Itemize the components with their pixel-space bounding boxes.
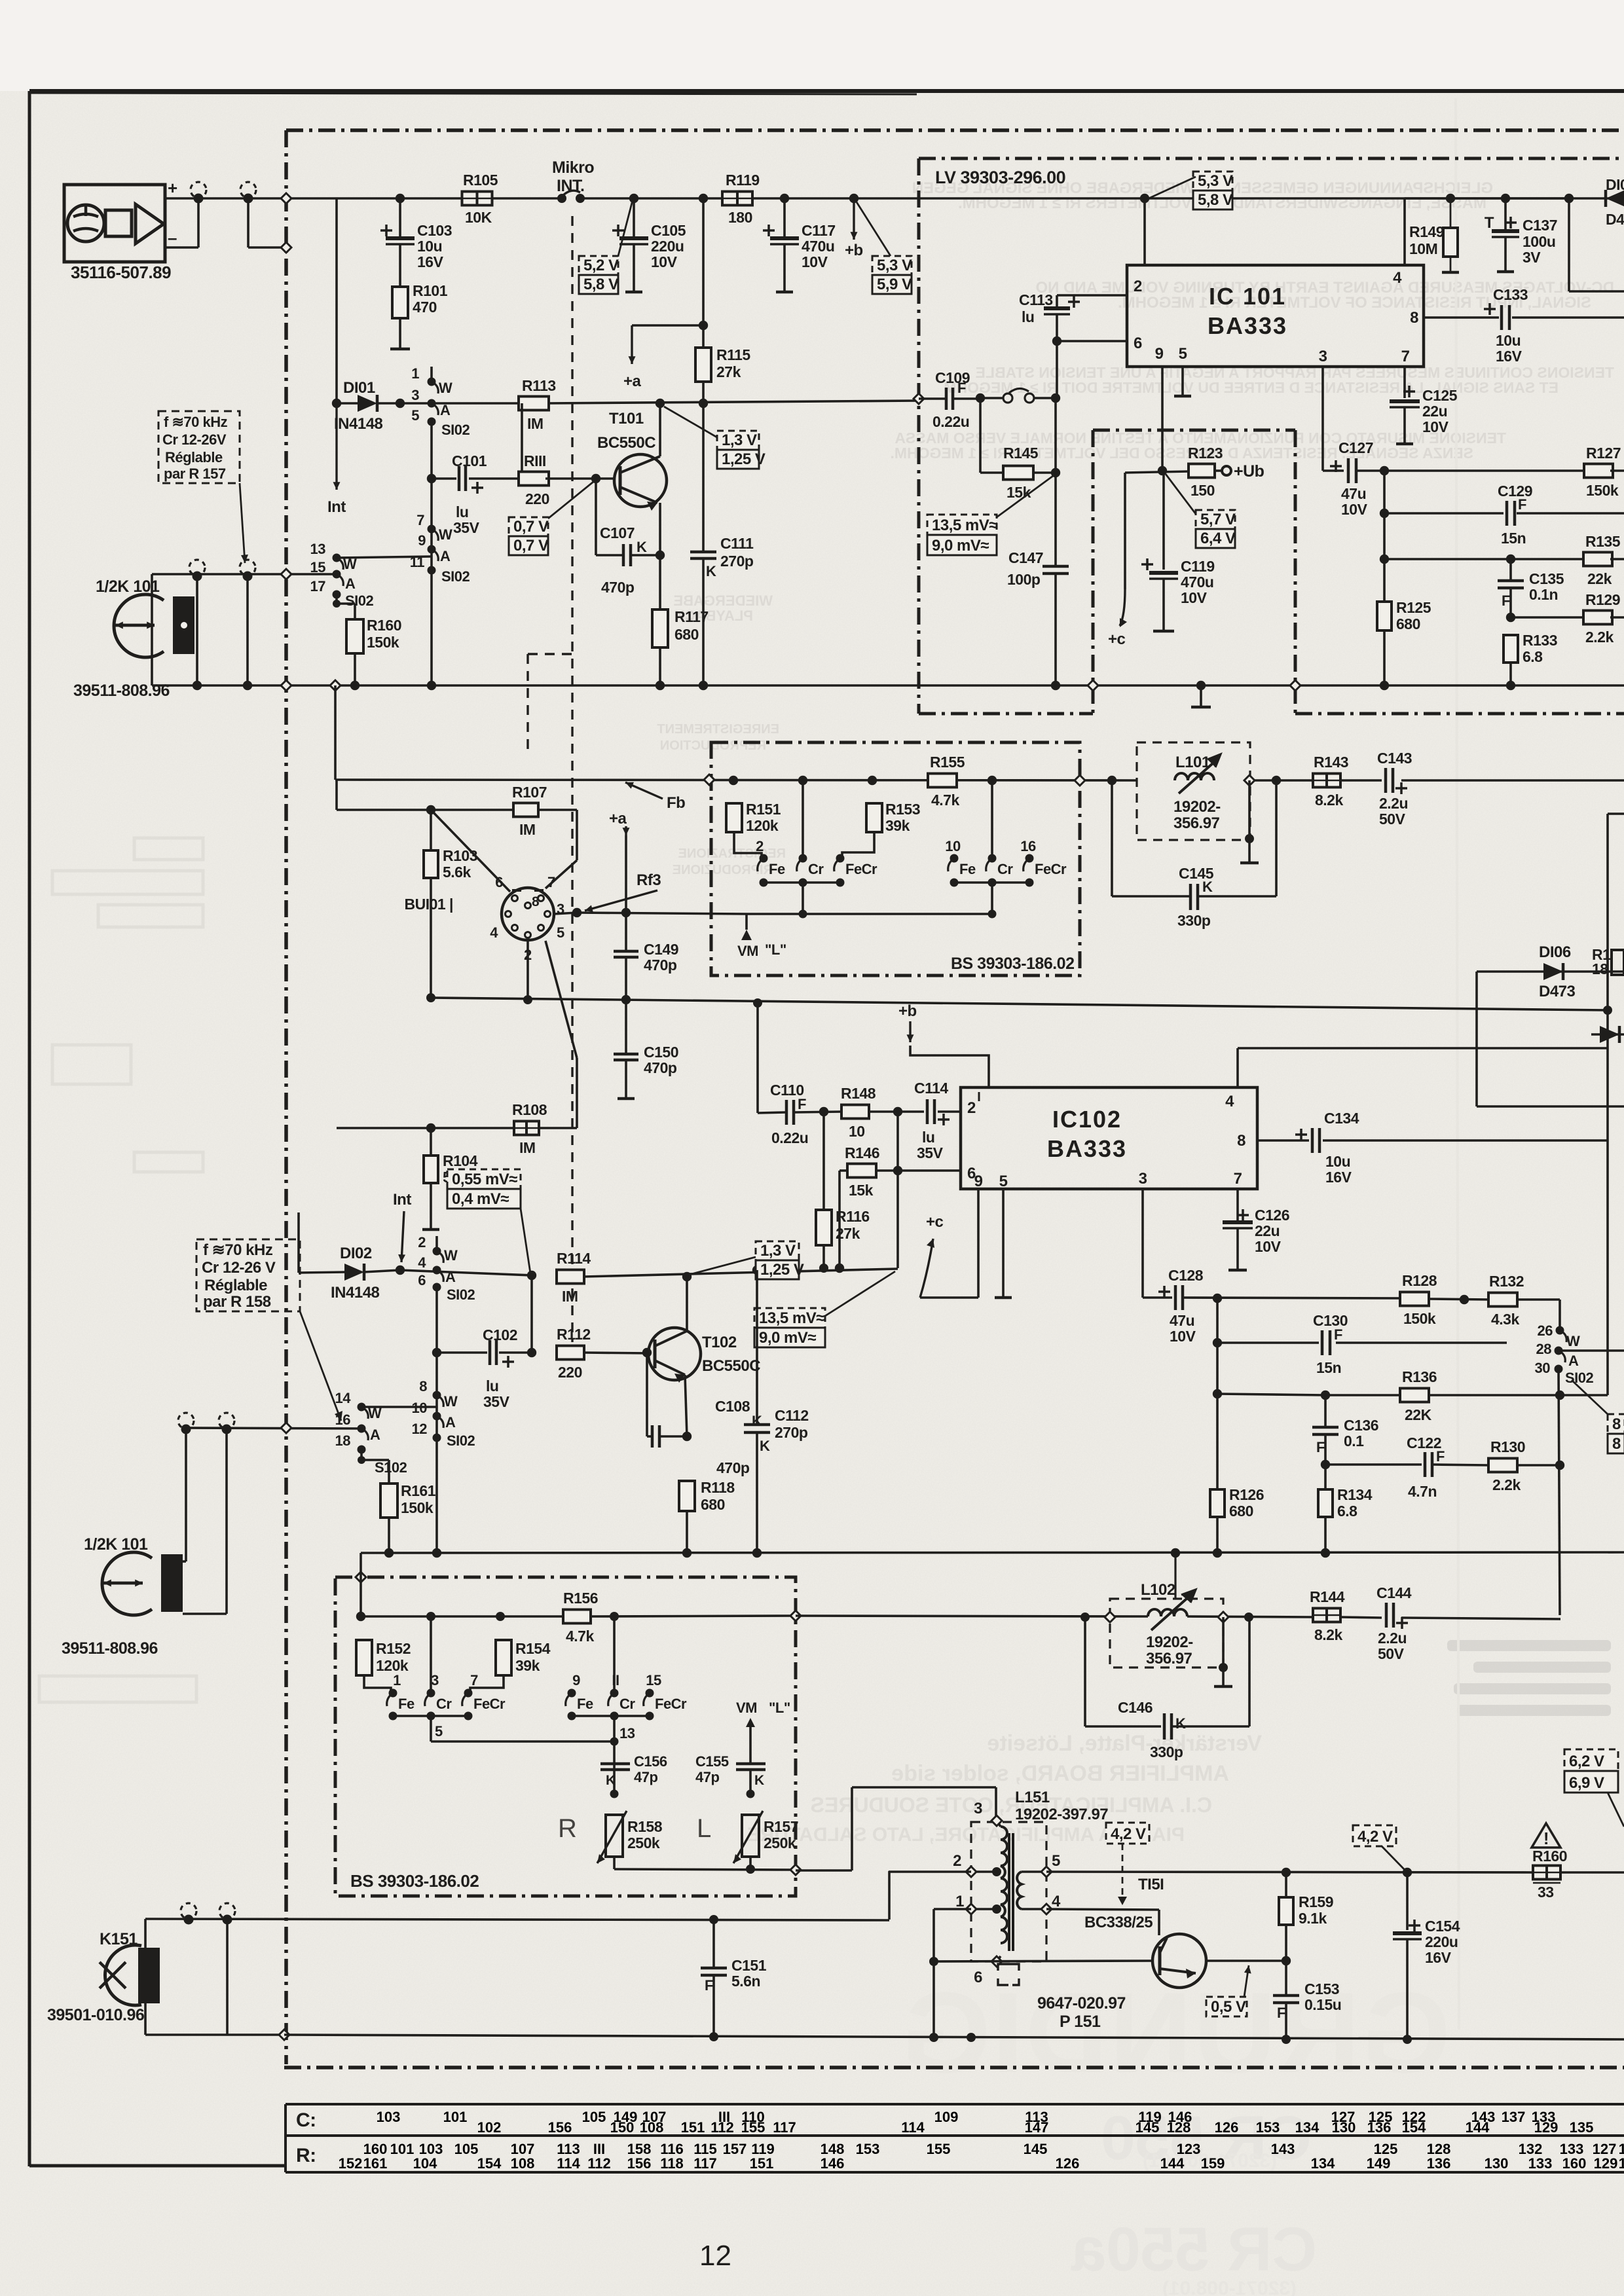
- svg-text:SI02: SI02: [447, 1432, 475, 1449]
- svg-text:DI06: DI06: [1539, 943, 1571, 961]
- svg-text:9,0 mV≈: 9,0 mV≈: [932, 537, 989, 555]
- svg-text:16V: 16V: [1425, 1949, 1452, 1966]
- flag 5,3V/5,8V at IC101 input: [1147, 172, 1233, 210]
- svg-text:6: 6: [974, 1969, 982, 1986]
- svg-text:INT.: INT.: [557, 177, 584, 195]
- svg-text:BC550C: BC550C: [597, 434, 655, 452]
- svg-text:220u: 220u: [651, 238, 684, 255]
- svg-text:R133: R133: [1522, 632, 1557, 649]
- svg-text:+c: +c: [926, 1213, 944, 1231]
- svg-text:156: 156: [548, 2119, 572, 2136]
- node M2 wire start: [356, 1612, 365, 1621]
- svg-text:130: 130: [1485, 2155, 1509, 2172]
- wire L101 ground tap: [1240, 780, 1259, 863]
- node C127/R125: [1380, 466, 1389, 475]
- wire base row lower y2066: [437, 1351, 532, 1354]
- svg-text:C135: C135: [1529, 570, 1564, 587]
- svg-text:3: 3: [431, 1672, 439, 1688]
- capacitor C127: [1330, 439, 1587, 518]
- svg-text:5,8 V: 5,8 V: [583, 276, 619, 293]
- wire y2131 row: [1325, 1140, 1608, 1395]
- wire lower head leads: [183, 1431, 227, 1614]
- svg-text:F: F: [957, 380, 966, 396]
- node head wire border: [281, 569, 291, 579]
- wire main to IC101 top: [1140, 194, 1149, 265]
- node C135: [1506, 555, 1515, 564]
- svg-text:16: 16: [1020, 838, 1036, 854]
- svg-text:3: 3: [1319, 348, 1327, 365]
- resistor R145 15k: [980, 398, 1056, 501]
- svg-text:R103: R103: [443, 847, 477, 864]
- svg-text:108: 108: [511, 2155, 535, 2172]
- svg-text:A: A: [440, 402, 451, 418]
- wire bus y1047: [152, 684, 1624, 687]
- node C137: [1501, 194, 1510, 203]
- node R107/R103: [426, 805, 435, 814]
- capacitor C137 100u: [1485, 198, 1557, 272]
- svg-text:15k: 15k: [1006, 484, 1031, 501]
- node bus2 junction: [752, 1548, 762, 1558]
- node C145 loop right: [1272, 776, 1281, 785]
- svg-text:18: 18: [335, 1432, 351, 1449]
- svg-text:470p: 470p: [716, 1459, 750, 1476]
- svg-text:5.6k: 5.6k: [443, 864, 471, 881]
- switch bank4 Cr contact (pin11): [608, 1612, 636, 1721]
- node R114 left: [527, 1271, 536, 1280]
- node DI02 cathode: [396, 1266, 405, 1275]
- node main/R115 column: [699, 194, 708, 203]
- node bus junction: [655, 681, 665, 690]
- svg-text:15: 15: [646, 1672, 661, 1688]
- module boundary dash-dot outer: [284, 130, 1624, 2068]
- tap Int arrow lower: [393, 1191, 411, 1262]
- svg-text:FeCr: FeCr: [1035, 861, 1067, 877]
- svg-text:6.8: 6.8: [1522, 648, 1543, 665]
- svg-text:19202-: 19202-: [1173, 798, 1221, 816]
- resistor R117: [652, 555, 709, 685]
- tap VM L lower / C155 column: [736, 1700, 790, 1764]
- svg-text:147: 147: [1025, 2119, 1049, 2136]
- svg-text:R156: R156: [563, 1590, 598, 1607]
- svg-text:Int: Int: [393, 1191, 411, 1209]
- svg-text:+b: +b: [898, 1002, 917, 1020]
- resistor R155 4.7k: [928, 754, 965, 809]
- svg-text:R136: R136: [1402, 1368, 1437, 1385]
- svg-text:120k: 120k: [376, 1657, 409, 1674]
- svg-text:152: 152: [339, 2155, 363, 2172]
- svg-text:BA333: BA333: [1208, 312, 1287, 339]
- wire bus y2372: [361, 1552, 1624, 1553]
- svg-text:Cr: Cr: [436, 1696, 452, 1712]
- svg-text:lu: lu: [922, 1129, 934, 1146]
- switch bank2 FeCr contact (pin16): [1020, 838, 1067, 887]
- svg-text:150k: 150k: [367, 634, 399, 651]
- svg-text:C155: C155: [695, 1753, 729, 1770]
- svg-text:35V: 35V: [917, 1144, 944, 1161]
- warning triangle: [1532, 1823, 1560, 1848]
- svg-text:109: 109: [934, 2109, 959, 2125]
- svg-text:6: 6: [495, 874, 503, 890]
- node R111 left: [517, 474, 526, 483]
- svg-text:L102: L102: [1141, 1581, 1175, 1599]
- lamp K151 39501-010.96: [47, 1930, 160, 2024]
- svg-text:IM: IM: [562, 1288, 578, 1305]
- switch bank3 FeCr contact (pin7): [462, 1672, 506, 1721]
- resistor R148 10: [841, 1085, 876, 1140]
- svg-text:13: 13: [619, 1725, 635, 1741]
- capacitor C128: [1158, 1267, 1402, 1345]
- svg-text:0.22u: 0.22u: [932, 413, 969, 430]
- svg-text:150k: 150k: [1586, 482, 1619, 499]
- wire L151 pin5 row y2859: [1046, 1872, 1624, 1872]
- svg-text:SI02: SI02: [345, 592, 374, 609]
- svg-text:27k: 27k: [716, 363, 741, 380]
- svg-text:f ≋70 kHz: f ≋70 kHz: [203, 1241, 273, 1259]
- wire second y616: [400, 401, 919, 403]
- svg-text:104: 104: [413, 2155, 437, 2172]
- svg-text:129: 129: [1534, 2119, 1559, 2136]
- switch S102 contacts 8/10/12: [412, 1287, 475, 1553]
- svg-text:R135: R135: [1585, 533, 1621, 550]
- svg-text:+a: +a: [609, 810, 627, 828]
- node y2131 row: [1555, 1391, 1564, 1400]
- svg-text:R134: R134: [1337, 1486, 1373, 1503]
- svg-text:4,2 V: 4,2 V: [1357, 1828, 1393, 1846]
- node main/C105: [629, 194, 638, 203]
- wire R113-left down to base row: [521, 403, 523, 479]
- svg-text:C112: C112: [775, 1407, 809, 1424]
- flag 5,2V/5,8V: [579, 200, 633, 294]
- svg-text:C129: C129: [1498, 483, 1532, 500]
- svg-text:WIEDERGABE: WIEDERGABE: [673, 592, 773, 609]
- svg-text:C147: C147: [1008, 549, 1043, 566]
- svg-text:8.2k: 8.2k: [1315, 792, 1343, 809]
- svg-text:2.2k: 2.2k: [1585, 629, 1614, 646]
- svg-text:330p: 330p: [1177, 912, 1211, 929]
- wire pin14 to S102 column: [361, 1406, 437, 1408]
- wire rail y1528 long: [431, 998, 1612, 1015]
- svg-text:26: 26: [1538, 1322, 1553, 1339]
- wire L151 pin4 row to T151 collector: [1046, 1909, 1159, 1935]
- svg-text:R144: R144: [1310, 1588, 1345, 1605]
- svg-text:4.7n: 4.7n: [1408, 1483, 1437, 1500]
- wire R114-left down: [530, 1275, 533, 1353]
- svg-text:ET SANS SIGNAL. LA RESISTANCE: ET SANS SIGNAL. LA RESISTANCE D ENTREE D…: [944, 379, 1559, 396]
- node main/C117: [780, 194, 789, 203]
- node bus2 junction: [682, 1548, 692, 1558]
- svg-text:C133: C133: [1493, 286, 1528, 303]
- svg-text:47u: 47u: [1341, 485, 1366, 502]
- svg-text:f ≋70 kHz: f ≋70 kHz: [164, 414, 228, 430]
- svg-text:19202-: 19202-: [1146, 1633, 1193, 1651]
- svg-text:356.97: 356.97: [1146, 1650, 1192, 1667]
- svg-text:2: 2: [1134, 278, 1142, 295]
- svg-text:5,9 V: 5,9 V: [877, 276, 912, 293]
- svg-text:R148: R148: [841, 1085, 876, 1102]
- svg-text:154: 154: [477, 2155, 502, 2172]
- svg-text:0.15u: 0.15u: [1304, 1996, 1341, 2013]
- tap Int arrow: [327, 403, 346, 516]
- svg-text:1/2K 101: 1/2K 101: [96, 577, 160, 596]
- svg-text:5.6n: 5.6n: [731, 1973, 760, 1990]
- svg-text:128: 128: [1167, 2119, 1191, 2136]
- node +a tap: [699, 321, 708, 330]
- svg-text:Fe: Fe: [769, 861, 785, 877]
- svg-text:28: 28: [1536, 1341, 1552, 1357]
- svg-text:149: 149: [1367, 2155, 1391, 2172]
- svg-text:FeCr: FeCr: [845, 861, 877, 877]
- svg-text:220: 220: [525, 490, 549, 507]
- diode DI05 D473 at edge: [1569, 176, 1624, 228]
- svg-text:K: K: [706, 563, 716, 579]
- node R108/R104: [426, 1123, 435, 1133]
- node M2 right diamonds: [790, 1611, 801, 1875]
- svg-text:4.7k: 4.7k: [566, 1628, 594, 1645]
- svg-text:Rf3: Rf3: [637, 871, 661, 889]
- svg-text:10V: 10V: [651, 253, 678, 270]
- node C130 row left: [1213, 1338, 1222, 1347]
- wire R108 row y1723: [337, 1127, 577, 1129]
- svg-text:1/2K 101: 1/2K 101: [84, 1535, 148, 1554]
- svg-text:7: 7: [1234, 1170, 1242, 1188]
- node pin6 row: [893, 1166, 902, 1175]
- capacitor C153 0.15u: [1273, 1961, 1341, 2039]
- svg-text:22u: 22u: [1255, 1222, 1280, 1239]
- switch bank1 Fe contact (pin2): [756, 838, 785, 887]
- wire R108-right to BU101 pin5: [545, 941, 577, 1128]
- svg-text:+c: +c: [1108, 630, 1126, 648]
- svg-text:16V: 16V: [417, 253, 444, 270]
- svg-text:+Ub: +Ub: [1234, 462, 1264, 481]
- wire head loop upper: [152, 574, 337, 685]
- svg-text:A: A: [445, 1414, 456, 1430]
- wire IC102 pin3: [1143, 1189, 1172, 1298]
- node M2 top diamond: [356, 1572, 366, 1582]
- svg-text:1,3 V: 1,3 V: [722, 431, 757, 449]
- supply tap +a column: [609, 810, 630, 913]
- svg-text:12: 12: [412, 1421, 428, 1437]
- svg-text:R113: R113: [522, 377, 556, 394]
- svg-text:10: 10: [945, 838, 961, 854]
- resistor R151 120k: [726, 801, 781, 857]
- svg-text:470: 470: [413, 299, 437, 316]
- svg-text:lu: lu: [456, 503, 468, 520]
- wire riser x1157: [753, 998, 762, 1113]
- resistor R143 8.2k: [1313, 754, 1348, 809]
- wire bank4 commons / pin13: [572, 1712, 650, 1795]
- svg-text:C136: C136: [1344, 1417, 1378, 1434]
- svg-text:155: 155: [741, 2119, 766, 2136]
- node R128/R132: [1460, 1295, 1469, 1304]
- svg-text:K: K: [754, 1773, 764, 1788]
- resistor R125 680: [1377, 599, 1431, 632]
- flag 8V/8V right edge: [1572, 1380, 1624, 1453]
- svg-text:9: 9: [418, 532, 426, 549]
- wire IC101 pin2: [1057, 294, 1127, 297]
- svg-text:9,0 mV≈: 9,0 mV≈: [759, 1329, 816, 1347]
- node bottom row diamond: [279, 2030, 289, 2040]
- wire IC101 pin4: [1403, 198, 1406, 265]
- wire IC102 pin6 row / R146: [840, 1171, 961, 1268]
- svg-text:–: –: [168, 228, 177, 247]
- wire IC101 pin6: [1057, 340, 1127, 342]
- svg-text:BUI01 |: BUI01 |: [404, 896, 453, 913]
- svg-text:VM: VM: [737, 943, 758, 959]
- svg-text:R155: R155: [930, 754, 965, 771]
- svg-text:270p: 270p: [720, 553, 754, 570]
- svg-text:Int: Int: [327, 498, 346, 516]
- svg-text:Fe: Fe: [577, 1696, 593, 1712]
- svg-text:+: +: [168, 178, 177, 198]
- bracket 9647-020.97 P151: [998, 1964, 1126, 2031]
- wire second lower y1940: [400, 1270, 532, 1275]
- node DI01 cathode: [396, 399, 405, 408]
- svg-text:F: F: [705, 1977, 713, 1994]
- svg-text:136: 136: [1367, 2119, 1392, 2136]
- resistor R119: [722, 172, 760, 226]
- resistor R161 150k: [380, 1482, 436, 1553]
- wire lower head row y2180: [186, 1428, 361, 1429]
- svg-text:R104: R104: [443, 1152, 478, 1169]
- svg-text:R157: R157: [764, 1818, 798, 1835]
- svg-text:112: 112: [587, 2155, 611, 2172]
- svg-text:A: A: [1568, 1353, 1579, 1369]
- transistor T151 BC338/25: [1084, 1876, 1286, 1988]
- svg-text:1: 1: [955, 1893, 964, 1910]
- switch S102 contacts 1/3/5: [411, 365, 470, 438]
- wire C129 row: [1384, 512, 1624, 515]
- svg-text:Verstärker-Platte, Lötseite: Verstärker-Platte, Lötseite: [987, 1731, 1262, 1756]
- svg-text:126: 126: [1056, 2155, 1080, 2172]
- svg-text:0.1: 0.1: [1344, 1432, 1364, 1449]
- svg-text:4: 4: [418, 1254, 426, 1271]
- svg-text:II: II: [612, 1672, 619, 1688]
- svg-text:5: 5: [411, 407, 419, 424]
- svg-text:8: 8: [1612, 1435, 1621, 1453]
- capacitor C107: [596, 479, 660, 596]
- node bus junction: [1506, 681, 1515, 690]
- svg-text:680: 680: [1396, 615, 1420, 632]
- transistor T102 BC550C: [648, 1328, 760, 1383]
- svg-text:R116: R116: [836, 1208, 870, 1225]
- capacitor C136: [1312, 1395, 1378, 1465]
- record/play head 1/2K101 upper 39511-808.96: [73, 577, 194, 700]
- resistor R128 150k: [1400, 1272, 1489, 1327]
- node T102 collector junction: [682, 1272, 692, 1281]
- tap +c curved arrow: [1108, 473, 1127, 648]
- node L101 left: [1107, 776, 1116, 785]
- node bottom row junctions: [929, 2033, 1412, 2044]
- svg-text:R129: R129: [1585, 591, 1620, 608]
- resistor R103 5.6k: [424, 810, 477, 998]
- svg-text:155: 155: [927, 2141, 951, 2157]
- switch Mikro INT contact: [552, 158, 594, 203]
- svg-text:330p: 330p: [1150, 1743, 1183, 1760]
- node bus junction: [350, 681, 360, 690]
- svg-text:C144: C144: [1376, 1584, 1412, 1601]
- svg-text:R107: R107: [512, 784, 547, 801]
- flag 5,7V/6,4V: [1166, 474, 1236, 548]
- node R136 row left: [1213, 1389, 1222, 1398]
- resistor R115: [695, 346, 750, 382]
- svg-text:150k: 150k: [401, 1499, 434, 1516]
- node Cr column top: [798, 776, 807, 785]
- flag f 70kHz Reglable par R158: [196, 1239, 342, 1421]
- svg-text:356.97: 356.97: [1173, 814, 1220, 832]
- wire R107 row y1237: [337, 780, 577, 810]
- svg-text:10K: 10K: [465, 209, 492, 226]
- node bus junction: [193, 681, 202, 690]
- svg-text:IN4148: IN4148: [331, 1284, 380, 1302]
- svg-text:105: 105: [454, 2141, 479, 2157]
- wire bank1 commons: [764, 879, 840, 915]
- svg-text:DI02: DI02: [340, 1245, 372, 1262]
- wire R123 row: [1125, 471, 1189, 473]
- svg-text:AMPLIFIER BOARD, solder side: AMPLIFIER BOARD, solder side: [891, 1761, 1229, 1786]
- resistor R137 cut at edge: [1592, 946, 1624, 977]
- wire S102-30 down: [1559, 1369, 1560, 1615]
- svg-text:Cr: Cr: [808, 861, 824, 877]
- svg-text:F: F: [798, 1096, 806, 1112]
- wire M2 row y2469: [361, 1616, 796, 1616]
- svg-text:L101: L101: [1175, 754, 1210, 771]
- svg-text:C102: C102: [483, 1326, 517, 1343]
- switch S102 contacts 14/16/18: [335, 1390, 407, 1476]
- DIN socket BU101: [404, 874, 564, 963]
- svg-text:R159: R159: [1299, 1893, 1333, 1910]
- switch S102 contacts 2/4/6: [418, 1234, 475, 1303]
- node lower head border: [281, 1423, 291, 1433]
- wire R126 column: [1216, 1298, 1219, 1552]
- svg-text:17: 17: [310, 578, 326, 594]
- svg-text:680: 680: [674, 626, 699, 643]
- node L101 right diamond: [1244, 775, 1255, 786]
- diode at right edge y1580: [1591, 1026, 1624, 1043]
- svg-text:2: 2: [418, 1234, 426, 1250]
- wire T101 collector: [659, 403, 661, 456]
- wire T102 emitter: [685, 1375, 687, 1436]
- svg-text:50V: 50V: [1378, 1645, 1405, 1662]
- svg-text:T102: T102: [702, 1334, 737, 1351]
- svg-text:39k: 39k: [515, 1657, 540, 1674]
- svg-text:10V: 10V: [1255, 1238, 1282, 1255]
- node bus junction: [1196, 681, 1206, 690]
- svg-text:C114: C114: [914, 1080, 948, 1097]
- svg-text:10V: 10V: [1170, 1328, 1196, 1345]
- svg-text:7: 7: [547, 874, 555, 890]
- svg-text:144: 144: [1160, 2155, 1185, 2172]
- svg-text:R143: R143: [1314, 754, 1348, 771]
- wire corner to edge y445: [1569, 198, 1624, 291]
- resistor R154 39k: [470, 1612, 551, 1692]
- svg-text:ENREGISTREMENT: ENREGISTREMENT: [657, 722, 779, 737]
- svg-text:220u: 220u: [1425, 1933, 1458, 1950]
- svg-text:12: 12: [699, 2240, 731, 2272]
- svg-text:129: 129: [1594, 2155, 1618, 2172]
- svg-text:Cr: Cr: [997, 861, 1013, 877]
- svg-text:R154: R154: [515, 1640, 551, 1657]
- wire M2 bottom row y2855: [614, 1865, 796, 1874]
- svg-text:T: T: [1485, 214, 1494, 232]
- svg-text:134: 134: [1311, 2155, 1335, 2172]
- svg-text:R:: R:: [296, 2145, 316, 2166]
- capacitor C134: [1295, 1110, 1359, 1186]
- svg-text:159: 159: [1201, 2155, 1225, 2172]
- node R130/S102-30: [1555, 1461, 1564, 1470]
- svg-text:18: 18: [1592, 960, 1608, 977]
- svg-text:Réglable: Réglable: [204, 1277, 267, 1294]
- node C109 row border: [913, 393, 924, 404]
